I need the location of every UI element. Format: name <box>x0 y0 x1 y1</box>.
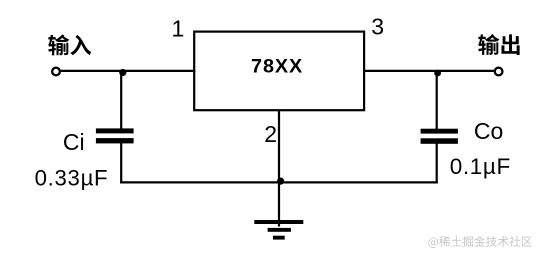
watermark @稀土掘金技术社区 <box>428 236 531 248</box>
input label 输入 <box>48 35 91 56</box>
svg-text:0.33µF: 0.33µF <box>35 166 109 191</box>
regulator U1 78XX (box) <box>194 32 364 111</box>
wire: 78XX pin 2 down to ground <box>278 111 280 227</box>
junction node: output / Co <box>434 70 441 77</box>
ground symbol <box>254 220 303 240</box>
junction node: pin 2 / ground rail <box>277 178 284 185</box>
svg-text:0.1µF: 0.1µF <box>450 154 511 179</box>
junction node: input / Ci <box>119 69 126 76</box>
wire: bottom ground rail <box>120 181 438 183</box>
svg-text:3: 3 <box>371 13 384 39</box>
capacitor Ci (plates + leads) <box>96 72 134 183</box>
output terminal (open circle) <box>495 68 503 76</box>
svg-text:1: 1 <box>172 15 185 41</box>
svg-text:78XX: 78XX <box>251 56 303 78</box>
capacitor Co (plates + leads) <box>421 72 458 183</box>
wire: 78XX pin 3 to output terminal <box>363 70 495 72</box>
wire: input terminal to 78XX pin 1 <box>60 70 195 72</box>
svg-text:Ci: Ci <box>63 129 85 155</box>
svg-text:Co: Co <box>474 118 503 144</box>
svg-text:2: 2 <box>264 121 277 147</box>
output label 输出 <box>478 34 519 55</box>
input terminal (open circle) <box>52 68 60 76</box>
